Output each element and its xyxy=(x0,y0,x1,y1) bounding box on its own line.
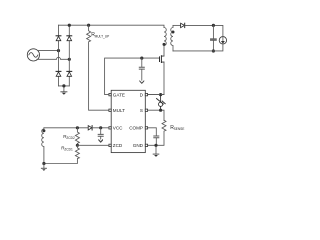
node output cap bottom xyxy=(212,49,215,52)
wire bridge bottom join xyxy=(59,86,70,92)
resistor RZCD2 upper xyxy=(75,128,79,146)
wire output top rail xyxy=(185,25,223,36)
diode D6 VCC rectifier xyxy=(88,126,92,130)
wire COMP pin network xyxy=(148,128,157,136)
diode D5 output rectifier xyxy=(181,23,185,27)
node top rail RMULT tap xyxy=(87,24,90,27)
svg-text:GATE: GATE xyxy=(113,92,125,97)
diode D3 lower-left xyxy=(56,71,61,76)
label RZCD2 xyxy=(63,134,75,140)
svg-text:GND: GND xyxy=(133,143,144,148)
wire ZCD node to ZCD pin xyxy=(77,144,109,146)
pin S xyxy=(145,109,147,111)
wire GATE pin loop to MOSFET gate xyxy=(105,58,160,95)
op-amp U1 controller IC body xyxy=(111,90,145,152)
svg-text:ZCD: ZCD xyxy=(113,143,123,148)
wire VCC diode to VCC pin xyxy=(92,127,109,129)
node top rail bridge right xyxy=(68,24,71,27)
label pin names xyxy=(113,92,144,148)
diode D1 upper-left xyxy=(56,36,61,41)
node output cap top xyxy=(212,24,215,27)
node aux phase dot xyxy=(42,129,45,132)
capacitor VCC xyxy=(98,128,103,139)
node AC bottom junction xyxy=(68,58,71,61)
node AC top junction xyxy=(57,49,60,52)
svg-text:S: S xyxy=(140,108,143,113)
load current source xyxy=(219,37,226,44)
wire S pin to RSENSE xyxy=(148,110,164,120)
AC source V1 xyxy=(27,49,39,61)
label RZCD1 xyxy=(61,145,73,151)
pin GND xyxy=(145,144,147,146)
node aux bottom junction xyxy=(42,162,45,165)
label RMULT_UP xyxy=(91,32,109,38)
transistor Q1 MOSFET xyxy=(160,56,165,63)
resistor RSENSE xyxy=(156,120,166,145)
transformer T1 secondary winding xyxy=(171,25,173,51)
pin VCC xyxy=(109,127,111,129)
wire D pin to sense element xyxy=(148,94,164,96)
svg-text:MULT_UP: MULT_UP xyxy=(95,34,110,38)
node primary phase dot xyxy=(163,43,166,46)
diode D4 lower-right xyxy=(67,71,72,76)
transformer T1 primary winding xyxy=(164,28,166,46)
wire aux top to VCC diode xyxy=(44,127,88,129)
wire MOSFET source to D node xyxy=(148,62,164,95)
svg-text:COMP: COMP xyxy=(129,126,143,131)
ground signal arrow below gate cap xyxy=(139,80,144,84)
wire secondary top to output diode xyxy=(173,24,181,26)
node gate line cap tap xyxy=(140,57,143,60)
sense element lamp between D and S xyxy=(157,95,166,111)
capacitor COMP xyxy=(154,136,159,145)
resistor RZCD1 lower xyxy=(44,145,80,163)
ground signal arrow below VCC cap xyxy=(98,139,103,143)
node D pin junction xyxy=(159,93,162,96)
node bridge bottom center xyxy=(62,84,65,87)
node RZCD top junction xyxy=(76,126,79,129)
transformer T1 aux winding xyxy=(42,128,44,164)
svg-text:ZCD2: ZCD2 xyxy=(66,136,75,140)
svg-text:SENSE: SENSE xyxy=(174,127,185,131)
node ZCD junction xyxy=(76,144,79,147)
wire AC bottom terminal with hop over left column xyxy=(37,57,69,59)
wire MOSFET drain to primary xyxy=(163,46,165,57)
ground aux winding xyxy=(41,164,46,171)
wire output bottom rail xyxy=(173,44,223,51)
wire bridge right column xyxy=(68,25,70,86)
svg-text:ZCD1: ZCD1 xyxy=(64,147,73,151)
node S pin junction xyxy=(159,109,162,112)
pin GATE xyxy=(109,94,111,96)
wire top rail xyxy=(59,25,165,27)
capacitor gate filter xyxy=(139,58,144,80)
node VCC cap tap xyxy=(99,126,102,129)
wire bridge left column xyxy=(58,25,60,86)
svg-text:MULT: MULT xyxy=(113,108,125,113)
wire GND pin to ground xyxy=(148,145,156,154)
svg-text:VCC: VCC xyxy=(113,126,123,131)
pin D xyxy=(145,94,147,96)
diode D2 upper-right xyxy=(67,36,72,41)
ground bridge xyxy=(61,92,67,95)
capacitor C out xyxy=(211,25,217,51)
pin MULT xyxy=(109,109,111,111)
pin ZCD xyxy=(109,144,111,146)
wire AC top terminal to bridge left column xyxy=(38,50,59,52)
resistor RMULT_UP xyxy=(87,25,109,110)
pin COMP xyxy=(145,127,147,129)
label RSENSE xyxy=(170,125,184,131)
node GND junction xyxy=(154,144,157,147)
ground IC GND xyxy=(153,154,159,157)
node secondary phase dot xyxy=(172,31,175,34)
